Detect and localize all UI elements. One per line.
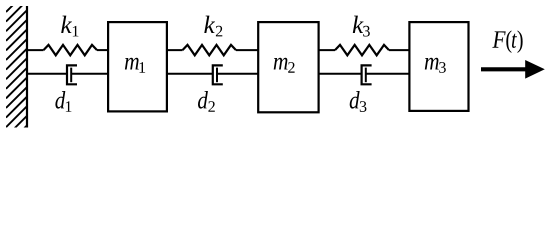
label m2 [274,58,295,73]
label m1 [125,58,145,73]
wire mass m1 to damper d2 [166,73,213,75]
wire damper d2 to mass m2 [217,73,259,75]
mass m3 [409,22,468,111]
spring k2 [183,45,237,55]
label k2 [204,16,222,37]
label d1 [55,91,71,112]
wire mass m1 to spring k2 [166,49,183,51]
wire damper d1 to mass m1 [71,73,108,75]
wire damper d3 to mass m3 [366,73,410,75]
damper d2 piston [216,68,218,83]
wire mass m2 to spring k3 [318,49,336,51]
label k1 [61,16,78,37]
spring k1 [44,45,98,55]
wire spring k1 to mass m1 [97,49,108,51]
damper d2 cup [213,65,223,84]
damper d3 cup [362,65,372,84]
mass m1 [108,22,167,111]
label d2 [198,91,215,112]
label k3 [353,16,370,37]
mass m2 [258,22,318,112]
label d3 [350,91,367,112]
damper d1 cup [67,65,77,84]
damper d3 piston [365,68,367,83]
wire spring k3 to mass m3 [389,49,410,51]
force arrow F(t) [481,67,529,71]
wall hatching [6,0,27,146]
spring k3 [335,45,389,55]
wire spring k2 to mass m2 [236,49,259,51]
label m3 [425,58,446,73]
label F(t) [492,30,522,53]
wire mass m2 to damper d3 [318,73,362,75]
wire wall to damper d1 [26,73,67,75]
wire wall to spring k1 [26,49,44,51]
damper d1 piston [70,68,72,83]
wall vertical line [26,6,28,128]
